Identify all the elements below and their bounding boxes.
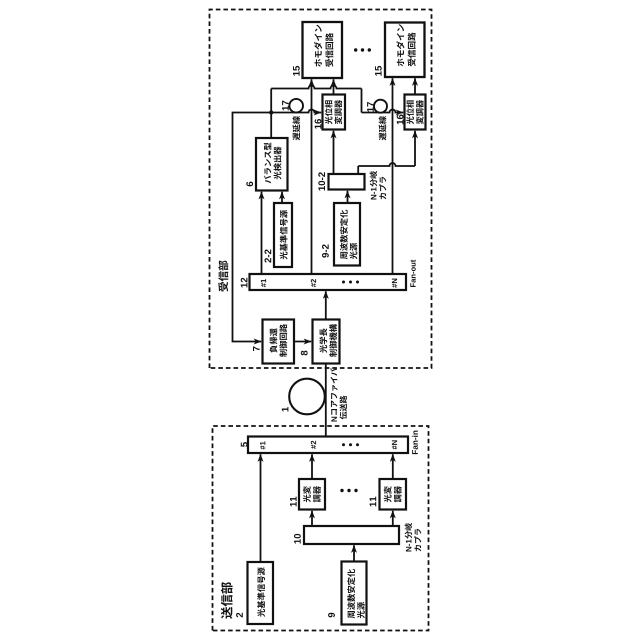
label 受信部	[218, 260, 228, 291]
wire box2-2 to box6	[281, 192, 283, 203]
wire box10 to box11#1	[311, 511, 313, 526]
box 15 ホモダイン受信回路 #1	[303, 22, 343, 78]
box 8 光学長制御機構	[313, 320, 340, 364]
wire box11#1 to fan-in port2	[311, 454, 313, 479]
wire box2 to fan-in port1	[260, 454, 262, 562]
label 10-2	[318, 186, 325, 190]
label 2-2	[264, 258, 271, 263]
label 11 #1	[290, 502, 297, 506]
box 9 周波数安定化光源	[342, 562, 367, 625]
label 11 #2	[370, 502, 377, 506]
label Fan-in	[412, 450, 418, 454]
box 9-2 周波数安定化光源	[334, 203, 360, 266]
label 17 #1	[282, 106, 289, 110]
box 2 光基準信号源	[248, 562, 274, 624]
box 11 光変調器 #2	[380, 479, 407, 510]
wire port#1 from fan-out to box6	[261, 192, 263, 274]
label 9	[328, 613, 335, 618]
label 9-2	[322, 253, 329, 258]
box 2-2 光基準信号源	[274, 203, 292, 267]
box 6 バランス型光検出器	[256, 138, 288, 191]
label 17 #2	[367, 107, 374, 111]
fan-in port labels	[260, 446, 265, 450]
wire box10 to box11#2	[392, 511, 394, 526]
label 7	[253, 347, 260, 352]
box 11 光変調器 #1	[299, 479, 325, 510]
label 2	[236, 613, 243, 618]
junction node	[269, 110, 273, 114]
delay line wire chain2 into box16#2	[362, 110, 404, 113]
label 1	[282, 407, 289, 411]
repetition dots between receiver chains	[354, 48, 357, 51]
wire box11#2 to fan-in portN	[392, 454, 394, 479]
label Nコアファイバ伝送路	[330, 368, 347, 421]
label 8	[301, 351, 308, 356]
wire port#N fan-out to homodyne 15 #2	[392, 78, 394, 274]
wire box9-2 to box10-2	[347, 191, 349, 203]
label 16 #1	[315, 124, 322, 128]
fan-out box 12	[250, 274, 407, 290]
wire 10-2 output to phase modulator 16 #2	[357, 166, 359, 174]
label 送信部	[221, 582, 233, 619]
transmitter dashed box 送信部	[213, 426, 429, 631]
wire box7 to box8	[294, 341, 311, 343]
wire 10-2 output to phase modulator 16 #1	[333, 131, 335, 174]
box 7 負帰還制御回路	[263, 320, 295, 364]
wire port#2 fan-out to homodyne 15 #1	[311, 79, 313, 274]
receiver dashed box 受信部	[210, 10, 432, 369]
wire box6 output to junction and corner	[270, 89, 272, 139]
label 15 #1	[293, 71, 300, 75]
label 16 #2	[397, 120, 404, 124]
delay coil circle 17 #1	[289, 99, 303, 113]
fiber line from fan-in to box8	[325, 364, 327, 437]
LO distribution wire down to chain2	[271, 86, 361, 89]
wire box16#1 to box15#1	[333, 79, 335, 94]
wire box16#2 to box15#2	[414, 78, 416, 94]
wire feedback from junction to box7	[233, 113, 272, 342]
box 16 光位相変調器 #1	[323, 95, 346, 130]
label 遅延線 #1	[292, 116, 300, 140]
repetition dots between modulators	[340, 489, 343, 492]
box 16 光位相変調器 #2	[405, 95, 426, 130]
label N-1分岐カプラ (transmitter)	[405, 523, 422, 552]
fan-in port dots	[342, 443, 345, 446]
label 15 #2	[375, 71, 382, 75]
fan-in box 5	[248, 437, 408, 454]
fiber coil circle 1	[289, 379, 325, 415]
label Fan-out	[410, 283, 415, 287]
fan-out port dots	[342, 281, 345, 284]
wire box9 to box10	[353, 545, 355, 561]
box 15 ホモダイン受信回路 #2	[385, 23, 425, 78]
label 10	[294, 539, 301, 543]
box 10-2 coupler	[329, 174, 365, 190]
label 5	[241, 442, 248, 447]
label N-1分岐カプラ (receiver)	[370, 171, 387, 200]
label 12	[241, 283, 248, 287]
label 6	[246, 182, 253, 187]
wire box8 to fan-out	[325, 291, 327, 319]
fan-out port labels	[261, 283, 266, 287]
delay coil circle 17 #2	[374, 100, 387, 113]
box 10 coupler	[304, 526, 399, 544]
label 遅延線 #2	[379, 116, 387, 140]
delay line wire chain1 into box16#1	[271, 110, 321, 113]
